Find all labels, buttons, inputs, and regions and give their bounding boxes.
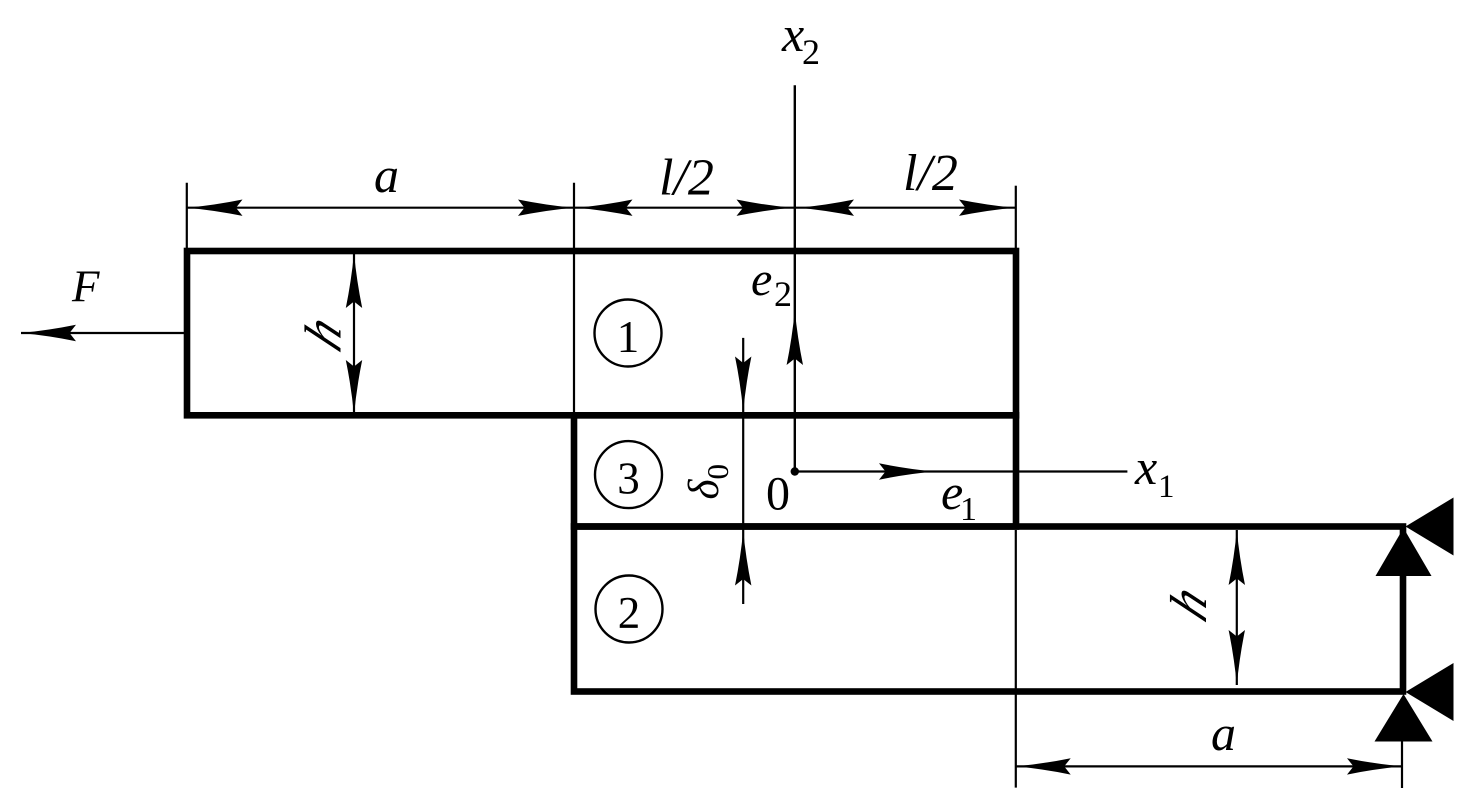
circled label 2 : circle bbox=[596, 576, 663, 643]
dimension arrow l/2 first left bbox=[578, 200, 633, 216]
extension line at overlap start x=574 bbox=[573, 183, 575, 412]
basis vector e1 arrowhead bbox=[879, 463, 934, 479]
delta0 arrow up bbox=[735, 531, 751, 586]
dimension arrow a-left bbox=[188, 200, 243, 216]
svg-text:2: 2 bbox=[774, 274, 792, 314]
svg-text:0: 0 bbox=[766, 468, 790, 521]
support pin bottom: left-pointing triangle bbox=[1406, 663, 1454, 721]
extension line below bottom support bbox=[1401, 742, 1403, 789]
adherend bar 1 outline bbox=[187, 251, 1016, 415]
x2 axis line bbox=[794, 85, 796, 471]
bottom dimension arrow left bbox=[1016, 758, 1071, 774]
svg-text:2: 2 bbox=[618, 588, 641, 638]
force F line bbox=[21, 332, 184, 334]
support pin top: left-pointing triangle bbox=[1406, 498, 1454, 556]
origin dot bbox=[791, 467, 799, 475]
top dimension line bbox=[187, 207, 1015, 209]
svg-text:a: a bbox=[1211, 705, 1236, 761]
basis vector e2 arrowhead bbox=[787, 310, 803, 365]
svg-text:F: F bbox=[71, 262, 100, 312]
x1 axis line bbox=[795, 470, 1128, 472]
label h (bar1, rotated) bbox=[294, 306, 352, 360]
extension line left (start of a) bbox=[186, 183, 188, 249]
circled label 3 : circle bbox=[595, 441, 662, 508]
svg-text:1: 1 bbox=[1158, 469, 1175, 505]
h dimension bar2 line bbox=[1236, 530, 1238, 685]
extension line x=1016 through bar 2 down to bottom dimension bbox=[1015, 530, 1017, 788]
dimension arrow l/2 first right bbox=[737, 200, 792, 216]
svg-text:x: x bbox=[1134, 439, 1157, 495]
label delta0 (rotated) bbox=[681, 464, 735, 500]
support pin top: up-pointing triangle bbox=[1376, 528, 1432, 576]
support pin bottom: up-pointing triangle bbox=[1375, 694, 1433, 742]
adhesive layer 3 outline bbox=[574, 415, 1016, 526]
svg-text:1: 1 bbox=[617, 312, 640, 362]
svg-text:e: e bbox=[751, 253, 772, 306]
delta0 dimension line bbox=[742, 338, 744, 604]
h dimension bar1 line bbox=[353, 253, 355, 415]
svg-text:x: x bbox=[781, 6, 804, 62]
adherend bar 2 outline bbox=[574, 527, 1403, 692]
dimension arrow l/2 second left bbox=[799, 200, 854, 216]
svg-text:l/2: l/2 bbox=[659, 150, 714, 207]
delta0 arrow down bbox=[735, 357, 751, 412]
dimension arrow a-right bbox=[518, 200, 573, 216]
force F arrowhead bbox=[21, 325, 76, 341]
extension line at overlap end x=1016 bbox=[1015, 186, 1017, 249]
bottom dimension arrow right bbox=[1347, 758, 1402, 774]
svg-text:1: 1 bbox=[960, 491, 977, 528]
bottom dimension line a bbox=[1016, 765, 1402, 767]
svg-text:a: a bbox=[374, 147, 399, 203]
label h (bar2, rotated) bbox=[1160, 576, 1218, 630]
svg-text:l/2: l/2 bbox=[903, 145, 958, 202]
h dimension bar2 arrow down bbox=[1229, 630, 1245, 685]
svg-text:3: 3 bbox=[617, 454, 640, 504]
circled label 1 : circle bbox=[595, 300, 662, 367]
h dimension bar2 arrow up bbox=[1229, 530, 1245, 585]
h dimension bar1 arrow up bbox=[346, 253, 362, 308]
dimension arrow l/2 second right bbox=[959, 200, 1014, 216]
h dimension bar1 arrow down bbox=[346, 360, 362, 415]
svg-text:2: 2 bbox=[802, 32, 820, 72]
